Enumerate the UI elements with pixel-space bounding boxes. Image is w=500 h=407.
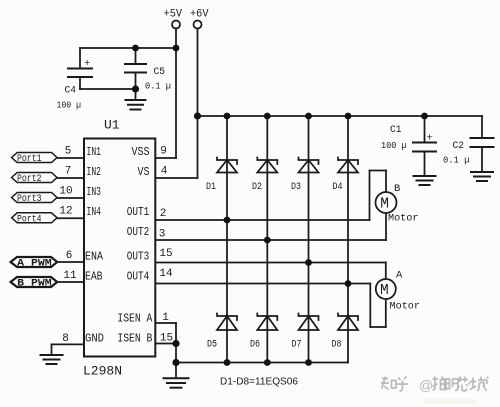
svg-text:VS: VS: [138, 166, 150, 179]
svg-text:4: 4: [161, 166, 168, 178]
svg-text:B: B: [394, 183, 400, 195]
svg-text:L298N: L298N: [83, 364, 122, 379]
svg-text:ISEN B: ISEN B: [117, 333, 152, 346]
svg-text:D2: D2: [252, 181, 262, 193]
svg-text:100 µ: 100 µ: [381, 140, 407, 151]
svg-text:D7: D7: [292, 339, 302, 351]
svg-text:C2: C2: [453, 140, 465, 152]
svg-text:0.1 µ: 0.1 µ: [443, 155, 470, 166]
svg-text:100 µ: 100 µ: [57, 100, 82, 111]
svg-text:15: 15: [159, 248, 172, 260]
svg-text:M: M: [380, 283, 389, 299]
svg-text:D1: D1: [206, 181, 216, 193]
svg-text:+6V: +6V: [190, 9, 209, 21]
svg-text:C1: C1: [390, 124, 402, 136]
svg-text:D8: D8: [332, 339, 342, 351]
svg-text:ISEN A: ISEN A: [117, 313, 152, 326]
svg-text:IN4: IN4: [87, 206, 102, 219]
svg-text:+5V: +5V: [164, 9, 183, 21]
svg-text:5: 5: [65, 146, 72, 158]
svg-text:ENA: ENA: [85, 251, 103, 264]
svg-text:GND: GND: [85, 333, 104, 346]
svg-text:D6: D6: [250, 339, 260, 351]
svg-text:A PWM: A PWM: [17, 258, 52, 270]
svg-text:EAB: EAB: [85, 271, 103, 284]
svg-text:OUT1: OUT1: [127, 206, 150, 219]
svg-text:U1: U1: [104, 118, 120, 133]
svg-text:+: +: [427, 133, 433, 145]
svg-text:C4: C4: [65, 85, 77, 97]
svg-text:Motor: Motor: [390, 301, 421, 313]
svg-text:6: 6: [66, 250, 73, 262]
svg-text:3: 3: [159, 229, 166, 241]
svg-text:IN3: IN3: [87, 186, 102, 199]
svg-text:12: 12: [59, 206, 72, 218]
svg-text:Port4: Port4: [17, 213, 42, 225]
svg-text:8: 8: [62, 333, 69, 345]
svg-text:11: 11: [63, 270, 77, 282]
svg-text:C5: C5: [154, 66, 166, 78]
svg-text:15: 15: [160, 333, 173, 345]
svg-text:9: 9: [160, 146, 167, 158]
svg-text:VSS: VSS: [132, 146, 150, 159]
svg-text:IN2: IN2: [87, 166, 102, 179]
svg-text:B PWM: B PWM: [17, 278, 52, 290]
svg-text:+: +: [84, 58, 90, 70]
svg-text:1: 1: [162, 312, 169, 324]
svg-text:2: 2: [160, 208, 167, 220]
svg-text:Port2: Port2: [17, 173, 42, 185]
svg-text:7: 7: [65, 166, 72, 178]
svg-text:@: @: [419, 377, 433, 393]
svg-text:D1-D8=11EQS06: D1-D8=11EQS06: [220, 376, 298, 388]
svg-text:OUT3: OUT3: [127, 251, 150, 264]
svg-text:14: 14: [159, 268, 173, 280]
svg-text:Motor: Motor: [388, 213, 419, 225]
svg-text:OUT4: OUT4: [127, 271, 150, 284]
svg-text:10: 10: [59, 186, 72, 198]
svg-text:D3: D3: [291, 181, 301, 193]
svg-text:0.1 µ: 0.1 µ: [145, 81, 171, 92]
svg-text:D4: D4: [333, 181, 343, 193]
svg-text:Port3: Port3: [17, 193, 42, 205]
svg-text:M: M: [380, 197, 389, 213]
svg-text:IN1: IN1: [87, 146, 102, 159]
svg-text:D5: D5: [207, 339, 217, 351]
svg-text:Port1: Port1: [17, 153, 42, 165]
svg-text:A: A: [396, 270, 403, 282]
svg-text:OUT2: OUT2: [127, 226, 150, 239]
